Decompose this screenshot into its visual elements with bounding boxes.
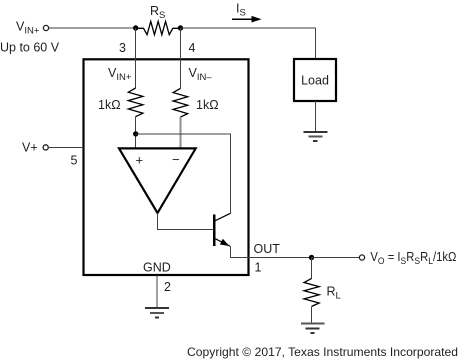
wire GND to ground (156, 275, 158, 308)
svg-text:1kΩ: 1kΩ (196, 98, 219, 112)
wire op-amp output to base (158, 213, 214, 230)
wire right resistor to minus input (179, 117, 181, 148)
resistor 1k left (128, 88, 143, 117)
svg-text:Load: Load (301, 74, 329, 88)
label RL (327, 285, 341, 302)
pin 4 number (189, 41, 196, 55)
pin 5 number (71, 154, 78, 168)
svg-text:GND: GND (143, 260, 171, 274)
label IS (236, 2, 246, 19)
wire OUT node to VO terminal (312, 257, 359, 259)
svg-text:RL: RL (327, 285, 341, 302)
svg-text:5: 5 (71, 154, 78, 168)
load block (294, 59, 336, 101)
pin label VIN- (189, 66, 213, 83)
wire node 4 to Load (181, 28, 316, 59)
svg-text:VIN–: VIN– (189, 66, 213, 83)
wire Load to ground (314, 101, 316, 132)
resistor RL (304, 258, 319, 324)
junction OUT node (309, 255, 314, 260)
svg-text:Up to 60 V: Up to 60 V (0, 41, 60, 55)
ground (load) (304, 132, 328, 141)
wire V+ to box (49, 146, 84, 148)
svg-text:V+: V+ (22, 141, 38, 155)
resistor 1k right (173, 88, 188, 117)
junction feedback node (133, 131, 138, 136)
label VO formula (370, 250, 456, 267)
IC boundary box U1 (84, 59, 249, 275)
svg-text:2: 2 (164, 280, 171, 294)
svg-text:Copyright © 2017, Texas Instru: Copyright © 2017, Texas Instruments Inco… (187, 345, 458, 359)
svg-text:−: − (172, 152, 180, 167)
junction node 3 (133, 25, 138, 30)
terminal V+ (43, 145, 48, 150)
svg-text:1: 1 (255, 261, 262, 275)
wire emitter to OUT node (230, 246, 311, 257)
junction node 4 (178, 25, 183, 30)
svg-text:3: 3 (119, 41, 126, 55)
label Up to 60 V (0, 41, 60, 55)
svg-text:RS: RS (150, 4, 165, 21)
pin 3 number (119, 41, 126, 55)
svg-text:VO = ISRSRL/1kΩ: VO = ISRSRL/1kΩ (370, 250, 456, 267)
pin OUT label (254, 242, 281, 256)
current arrow IS (232, 16, 262, 23)
resistor RS (136, 21, 181, 34)
pin label VIN+ (108, 66, 132, 83)
svg-text:OUT: OUT (254, 242, 281, 256)
svg-text:VIN+: VIN+ (108, 66, 132, 83)
label 1k left (98, 98, 121, 112)
wire VIN+ to node 3 (49, 27, 136, 29)
wire node 4 to resistor (179, 28, 181, 88)
label RS (150, 4, 165, 21)
ground (RL) (301, 324, 325, 334)
terminal VIN+ (43, 25, 48, 30)
wire feedback node to collector (136, 134, 231, 213)
label 1k right (196, 98, 219, 112)
svg-text:1kΩ: 1kΩ (98, 98, 121, 112)
transistor Q1 (214, 213, 230, 246)
ground (GND pin) (145, 308, 169, 317)
svg-text:+: + (136, 153, 144, 168)
copyright note (187, 345, 458, 359)
svg-text:VIN+: VIN+ (16, 20, 40, 37)
svg-text:4: 4 (189, 41, 196, 55)
pin GND label (143, 260, 171, 274)
terminal VO (359, 255, 364, 260)
pin 2 number (164, 280, 171, 294)
label V+ (22, 141, 38, 155)
wire left resistor to plus input (135, 117, 137, 149)
svg-text:IS: IS (236, 2, 246, 19)
wire node 3 to resistor (135, 28, 137, 88)
label VIN+ (16, 20, 40, 37)
pin 1 number (255, 261, 262, 275)
op-amp A1 (119, 148, 196, 213)
